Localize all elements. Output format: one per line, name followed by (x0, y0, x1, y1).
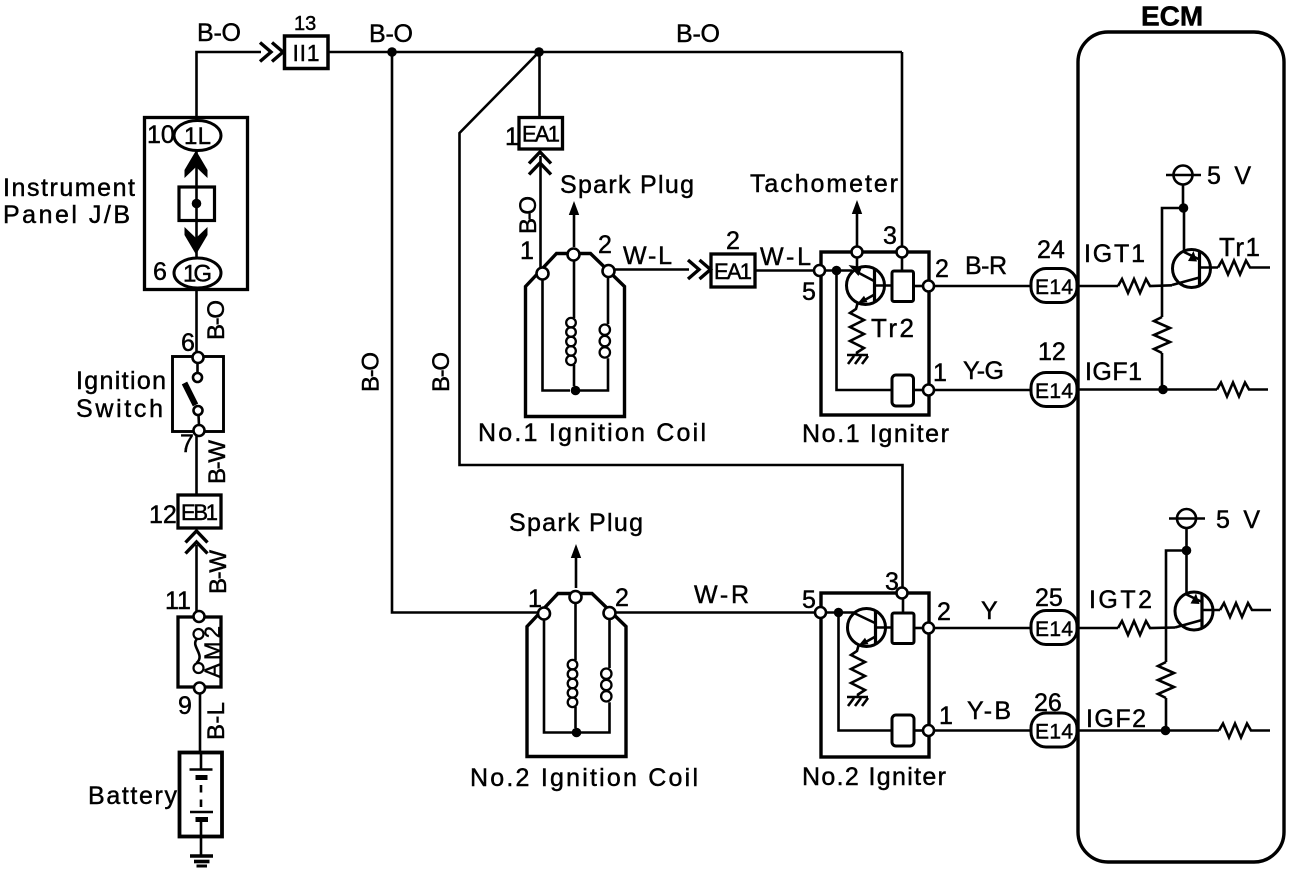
wire IGF2 row (1077, 729, 1219, 732)
connector oval E14 (25) (1031, 611, 1077, 645)
wire 5V to junction (1182, 185, 1185, 209)
svg-text:3: 3 (885, 568, 899, 596)
wire 1G to ignition switch (195, 288, 198, 352)
wire 5V to junction 2 (1185, 528, 1188, 551)
current-flow arrow down (solid) (185, 227, 208, 255)
switch lever (185, 383, 196, 405)
svg-text:B-O: B-O (515, 196, 542, 234)
svg-text:B-L: B-L (203, 702, 230, 740)
svg-text:5 V: 5 V (1207, 162, 1251, 190)
svg-text:2: 2 (726, 227, 740, 255)
connector EA1 (mid) (711, 254, 755, 287)
svg-text:Tr1: Tr1 (1219, 232, 1260, 262)
igniter1 wire tach circle to transistor (856, 258, 859, 268)
svg-text:2: 2 (615, 584, 629, 612)
svg-text:B-O: B-O (428, 352, 455, 392)
svg-text:IGT1: IGT1 (1084, 240, 1145, 268)
svg-text:1: 1 (933, 359, 947, 387)
svg-text:11: 11 (165, 587, 191, 615)
ignition switch box (173, 357, 224, 432)
igniter1 terminal circles (852, 247, 863, 258)
current-flow arrow up (solid) (185, 151, 208, 179)
svg-text:No.1 Igniter: No.1 Igniter (802, 420, 949, 448)
igniter1 wire pin3 to output rect (901, 258, 904, 272)
transistor Tr1 (1172, 250, 1218, 288)
svg-text:1: 1 (520, 237, 534, 265)
node junction dot ECM1 top (1179, 203, 1189, 213)
svg-text:13: 13 (294, 13, 316, 35)
svg-text:25: 25 (1035, 584, 1063, 612)
switch wire stubs (198, 362, 200, 426)
igniter2 terminal circles (897, 588, 908, 599)
coil2 secondary coil (601, 669, 611, 702)
tachometer arrow (852, 200, 862, 214)
svg-text:3: 3 (883, 222, 897, 250)
svg-text:1: 1 (939, 702, 953, 730)
resistor vertical ECM1 (1154, 317, 1170, 353)
igniter2 output rect lower (892, 715, 914, 746)
connector arrow up below EA1 (529, 152, 551, 175)
svg-text:5: 5 (802, 586, 816, 614)
svg-text:5 V: 5 V (1216, 506, 1260, 534)
junction block II1 (285, 36, 329, 69)
resistor IGT1 input (1118, 279, 1172, 293)
svg-text:IGF2: IGF2 (1086, 705, 1146, 733)
connector arrow into EA1 mid (688, 260, 711, 279)
igniter2 wire pin3 to output rect (902, 599, 905, 614)
svg-text:1G: 1G (183, 261, 212, 288)
svg-text:B-O: B-O (676, 20, 720, 48)
svg-text:Tachometer: Tachometer (750, 170, 898, 198)
svg-text:2: 2 (935, 255, 949, 283)
wire W-R coil2 pin2 to igniter2 pin5 (616, 611, 816, 614)
ground below battery (190, 854, 213, 858)
svg-text:IGT2: IGT2 (1089, 586, 1152, 614)
wire resistor to IGF2 junction (1165, 698, 1168, 731)
switch terminal circle bottom (194, 425, 205, 436)
node junction dot IGF1 (1158, 385, 1168, 395)
wire IGT2 row (1077, 627, 1118, 630)
igniter1 output rect lower (892, 375, 914, 406)
wire junction down to Tr (2) (1185, 551, 1188, 595)
svg-text:2: 2 (937, 598, 951, 626)
svg-text:1: 1 (528, 585, 542, 613)
5V supply symbol 1 (1166, 166, 1201, 185)
igniter no.1 box (821, 252, 929, 415)
node junction dot ECM2 top (1182, 546, 1192, 556)
switch contact circle upper (193, 373, 202, 382)
coil1 primary coil (566, 318, 576, 365)
spark plug arrow no.2 (571, 544, 581, 558)
svg-text:1: 1 (505, 123, 519, 151)
transistor Tr2 (igniter1) (847, 265, 893, 305)
wire junction down to Tr1 (1183, 208, 1186, 252)
transistor (igniter2) (848, 609, 893, 647)
wire resistor to IGF1 junction (1161, 353, 1164, 390)
svg-text:Switch: Switch (76, 395, 163, 423)
coil2 bottom junction dot (572, 728, 582, 738)
fusible link AM2 symbol (194, 629, 204, 639)
AM2 terminal circle bottom (194, 683, 205, 694)
svg-text:12: 12 (1038, 338, 1066, 366)
svg-text:No.2 Ignition Coil: No.2 Ignition Coil (470, 764, 698, 792)
transistor ECM 2 (1175, 592, 1220, 630)
svg-text:Battery: Battery (88, 782, 178, 810)
wire IGT1 row (1077, 285, 1118, 288)
resistor IGT2 input (1118, 621, 1175, 635)
wire Y-G igniter1 to E14 (934, 389, 1031, 392)
coil1 pin 2 circle (603, 265, 615, 277)
instrument panel J/B box (145, 118, 248, 290)
connector oval 1G (174, 258, 221, 288)
coil1 primary winding wire from pin1 (543, 279, 571, 391)
battery box (180, 753, 223, 837)
wire Y-B igniter2 to E14 (934, 729, 1031, 732)
connector arrow up below EB1 (186, 531, 208, 554)
svg-text:Ignition: Ignition (76, 367, 166, 395)
connector oval E14 (26) (1031, 713, 1077, 747)
coil1 bottom junction dot (571, 386, 581, 396)
ignition coil no.1 outline (526, 254, 625, 417)
igniter2 junction dot (834, 608, 843, 617)
wire diagonal and loop to No.2 igniter pin 3 (460, 52, 903, 588)
svg-text:E14: E14 (1035, 721, 1073, 744)
svg-text:EB1: EB1 (181, 500, 218, 525)
igniter2 output rect upper (892, 613, 914, 644)
svg-text:26: 26 (1034, 689, 1062, 717)
wire W-L EA1 to igniter pin5 (755, 269, 814, 272)
igniter no.2 box (821, 593, 929, 757)
wire junction to left rail (1162, 208, 1184, 317)
5V supply symbol 2 (1169, 509, 1205, 528)
svg-text:W-R: W-R (694, 581, 749, 609)
svg-text:Panel J/B: Panel J/B (3, 201, 130, 229)
svg-text:EA1: EA1 (714, 259, 752, 284)
coil1 secondary lead (607, 277, 610, 324)
svg-text:24: 24 (1037, 236, 1065, 264)
igniter1 emitter resistor (850, 304, 864, 356)
switch terminal circle top (193, 352, 204, 363)
svg-text:E14: E14 (1035, 276, 1073, 299)
resistor vertical ECM2 (1158, 662, 1174, 698)
svg-text:No.1 Ignition Coil: No.1 Ignition Coil (478, 419, 706, 447)
node junction dot at (392,52) (387, 47, 397, 57)
spark plug arrow no.1 (569, 201, 579, 215)
connector oval E14 (12) (1031, 373, 1077, 407)
svg-text:Spark Plug: Spark Plug (509, 509, 643, 537)
svg-text:Spark Plug: Spark Plug (560, 171, 694, 199)
wire from node down into EA1 (538, 52, 541, 118)
igniter2 internal ground (847, 696, 868, 699)
coil2 pin 1 circle (538, 608, 550, 620)
svg-text:6: 6 (153, 258, 167, 286)
svg-text:B-W: B-W (204, 440, 231, 484)
connector EB1 (178, 495, 221, 528)
svg-text:B-O: B-O (197, 19, 241, 47)
wire IGF1 row (1077, 388, 1217, 391)
svg-text:E14: E14 (1035, 380, 1073, 403)
svg-text:6: 6 (181, 329, 195, 357)
wire B-L AM2 to battery (199, 694, 202, 754)
svg-text:EA1: EA1 (522, 122, 560, 147)
igniter2 inner wire from pin5 junction (827, 613, 892, 731)
svg-text:B-O: B-O (358, 352, 385, 392)
switch contact circle lower (194, 406, 203, 415)
coil2 center lead (574, 601, 577, 661)
node junction dot at (539,52) (534, 47, 544, 57)
coil1 center lead (573, 261, 576, 319)
svg-text:E14: E14 (1035, 618, 1073, 641)
igniter1 output rect upper (892, 271, 914, 302)
wire B-W EB1 to AM2 (195, 545, 198, 612)
node junction dot IGF2 (1161, 726, 1171, 736)
svg-text:B-W: B-W (205, 550, 232, 594)
svg-text:Y: Y (981, 597, 998, 625)
wire B-O from II1 to node at x902 (328, 51, 902, 54)
wire vertical B-O feed to No.2 coil (392, 52, 538, 613)
coil1 pin 1 circle (537, 268, 549, 280)
svg-text:1L: 1L (184, 123, 211, 150)
wire W-L coil1 pin2 to EA1 (615, 268, 690, 271)
resistor IGF1 (1217, 383, 1268, 397)
igniter1 inner wire from pin5 junction (825, 271, 892, 391)
coil2 primary winding wire from pin1 (544, 619, 572, 733)
wire B-O from instrument panel top to II1 (197, 52, 262, 120)
fuse AM2 box (178, 617, 221, 687)
connector oval 1L (174, 121, 221, 151)
svg-text:Tr2: Tr2 (871, 313, 914, 343)
svg-text:B-O: B-O (203, 300, 230, 340)
coil2 secondary lead (608, 619, 611, 668)
AM2 terminal circle top (194, 611, 205, 622)
battery cells (200, 752, 203, 769)
ECM box (1078, 32, 1284, 862)
connector EA1 (top) (519, 118, 563, 150)
resistor Tr1 base/right (1218, 261, 1270, 275)
igniter1 junction dot (832, 266, 842, 276)
svg-text:B-O: B-O (369, 20, 413, 48)
wire through J/B (195, 150, 198, 259)
wire vertical down to No.1 igniter pin 3 (901, 52, 904, 247)
igniter1 internal ground (847, 354, 868, 357)
wire B-O from EA1 arrow down to coil1 pin1 (539, 156, 542, 268)
igniter2 emitter resistor (851, 646, 865, 698)
svg-text:Y-B: Y-B (967, 697, 1011, 725)
connector oval E14 (24) (1031, 269, 1077, 303)
connector arrow into II1 (260, 43, 283, 62)
coil1 secondary coil (600, 325, 610, 358)
wire B-W switch to EB1 (195, 436, 198, 495)
wire B-R igniter1 to E14 (934, 285, 1031, 288)
coil2 primary coil (568, 660, 578, 707)
resistor IGF2 (1219, 724, 1270, 738)
svg-text:10: 10 (147, 121, 175, 149)
wire Y igniter2 to E14 (934, 627, 1031, 630)
svg-text:Instrument: Instrument (3, 174, 135, 202)
resistor Tr base/right 2 (1220, 603, 1271, 617)
svg-text:No.2 Igniter: No.2 Igniter (802, 763, 946, 791)
svg-text:W-L: W-L (760, 243, 811, 271)
coil2 pin 2 circle (604, 607, 616, 619)
fuse square with dot (179, 187, 215, 221)
svg-text:AM2: AM2 (200, 626, 225, 678)
coil1 top terminal circle (568, 249, 580, 261)
svg-text:ECM: ECM (1141, 1, 1203, 32)
svg-text:Y-G: Y-G (963, 357, 1004, 385)
svg-text:7: 7 (180, 430, 194, 458)
svg-text:5: 5 (802, 278, 816, 306)
svg-text:B-R: B-R (965, 252, 1007, 280)
svg-text:II1: II1 (293, 40, 320, 66)
svg-text:9: 9 (178, 692, 192, 720)
svg-text:IGF1: IGF1 (1085, 358, 1142, 386)
svg-text:12: 12 (149, 501, 177, 529)
svg-text:W-L: W-L (623, 242, 672, 270)
svg-text:2: 2 (598, 231, 612, 259)
coil2 top terminal circle (570, 591, 582, 603)
ignition coil no.2 outline (527, 594, 626, 757)
wire junction to left rail 2 (1166, 551, 1187, 663)
